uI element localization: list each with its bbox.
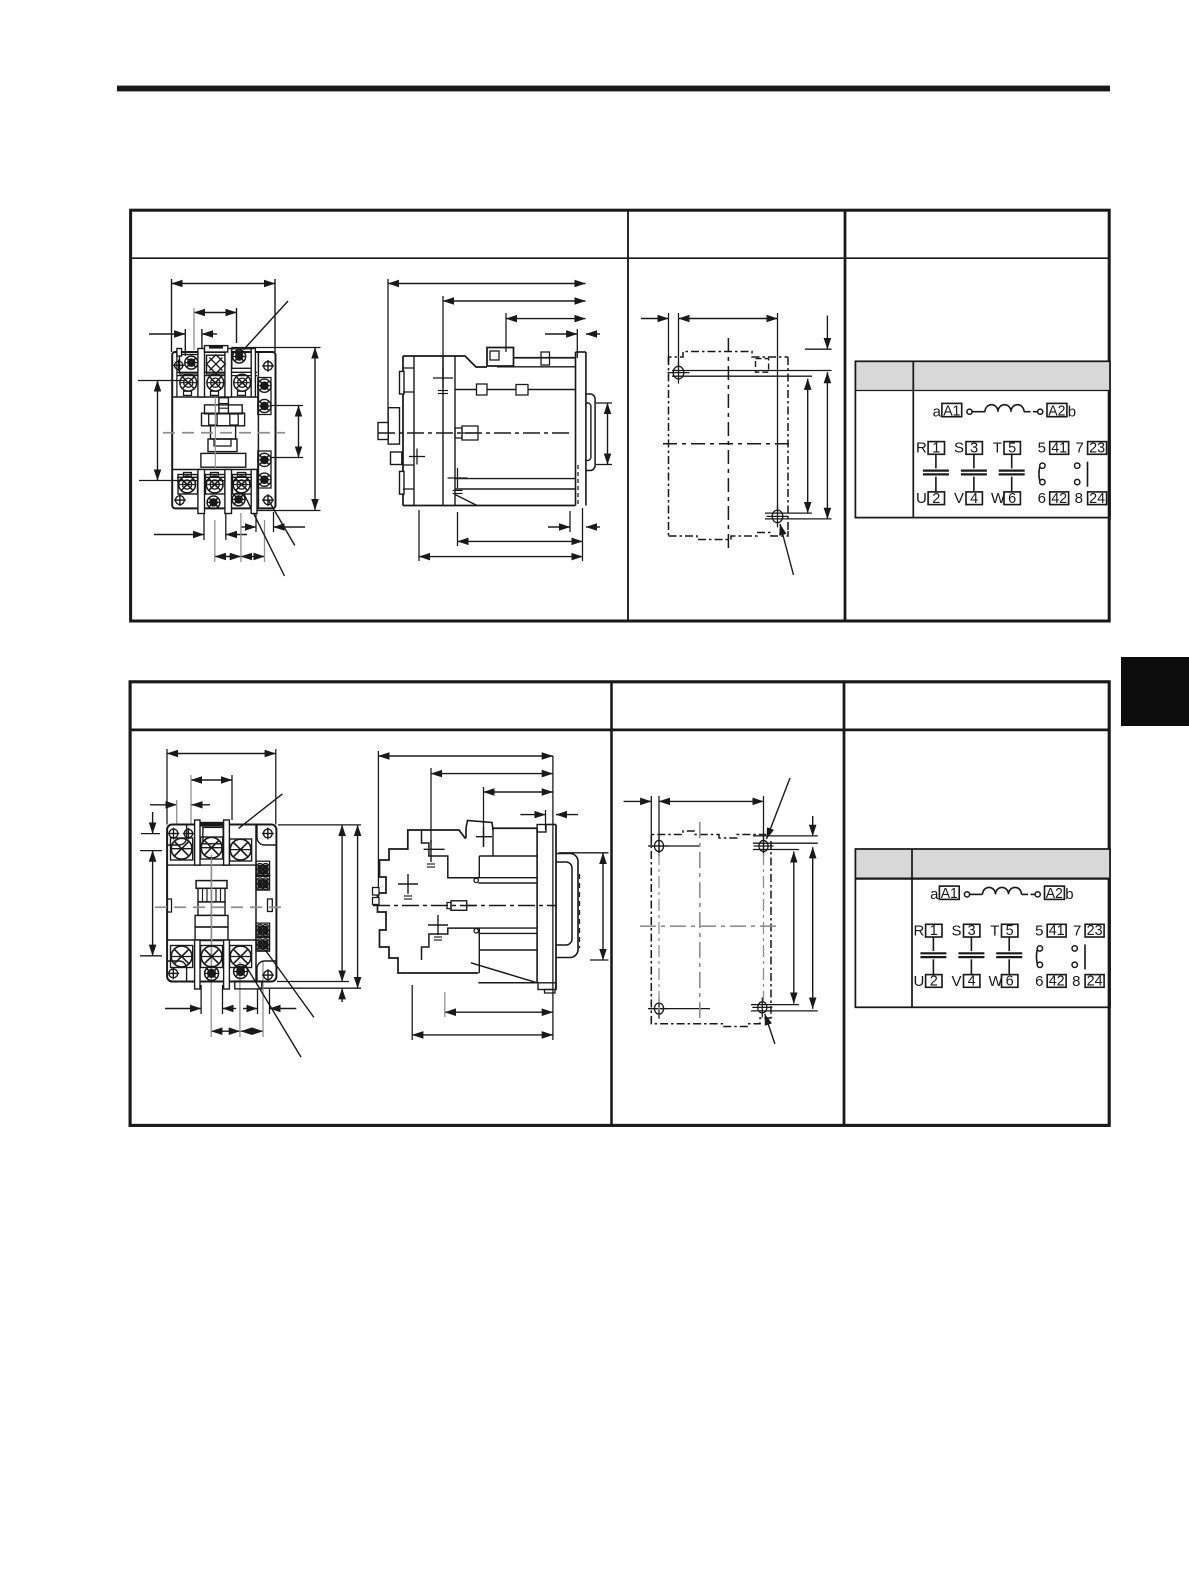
device outline (phantom) (669, 352, 789, 363)
front view: aux block height dimension (298, 406, 300, 458)
side view: rail gap dim (545, 333, 577, 335)
load side tabs (184, 473, 192, 477)
terminal lug marks (184, 391, 192, 395)
DIN rail bracket (586, 394, 595, 471)
aux NO contact 23-24 (1075, 463, 1080, 468)
svg-text:41: 41 (1051, 440, 1067, 456)
front view 2: terminal span dim (191, 779, 232, 781)
side profile 2: left staircase (378, 830, 422, 973)
svg-text:6: 6 (1035, 973, 1043, 990)
side view 2: rail gap dim (520, 814, 545, 816)
front face protrusions (400, 371, 405, 394)
svg-text:S: S (952, 922, 962, 939)
diagram table gray header (855, 361, 1110, 390)
svg-text:3: 3 (970, 440, 978, 456)
vertical hole axes (658, 853, 660, 1015)
leader to load terminal screw (244, 493, 285, 576)
svg-text:V: V (952, 973, 962, 990)
diagram table gray header (855, 849, 1110, 879)
center line (163, 432, 285, 434)
bottom lugs (195, 940, 200, 989)
load side screws (171, 946, 192, 967)
svg-text:T: T (990, 922, 999, 939)
bottom dims row A (165, 1008, 201, 1010)
case mid verticals (478, 856, 480, 878)
front view: terminal span dimension (194, 312, 237, 314)
svg-text:42: 42 (1051, 491, 1067, 507)
top cover dark bar (196, 822, 223, 827)
front view: overall height dimension (314, 348, 316, 511)
center lines 2 (699, 822, 701, 1023)
svg-text:3: 3 (968, 923, 976, 939)
aux NC contact 41-42 (1040, 463, 1045, 468)
hidden edge (577, 465, 579, 505)
line side screws (171, 838, 192, 859)
case internal verticals (442, 356, 444, 506)
phase separators top (198, 349, 205, 398)
center pin (451, 901, 467, 911)
top small screws (184, 829, 192, 837)
main contact (935, 454, 937, 468)
corner mounting ears (167, 825, 187, 845)
side view: overall depth dimension (388, 283, 586, 285)
center line 2 (373, 905, 557, 907)
bottom dims row B (211, 1030, 240, 1032)
height dims (807, 379, 809, 513)
load side screw pads (171, 946, 193, 968)
case horizontal edges (497, 366, 576, 368)
side view 2: depth dim 2 (431, 773, 553, 775)
DIN bracket 2 (556, 854, 578, 958)
svg-text:A1: A1 (941, 886, 958, 902)
side view: depth to mounting face dim (443, 300, 586, 302)
left small dim (152, 812, 154, 834)
svg-text:U: U (914, 973, 925, 990)
svg-text:8: 8 (1075, 490, 1083, 507)
svg-text:6: 6 (1008, 491, 1016, 507)
svg-text:1: 1 (930, 923, 938, 939)
table 2 frame (130, 682, 1109, 1126)
mounting hole bottom-right (772, 510, 783, 523)
hole extension lines (672, 370, 832, 372)
side view: cover depth dim (506, 318, 586, 320)
svg-text:24: 24 (1087, 974, 1103, 990)
side view 2: cover depth dim (484, 791, 553, 793)
side view: rail height dim (607, 403, 609, 465)
leader to line terminal (239, 794, 283, 829)
svg-text:1: 1 (932, 440, 940, 456)
svg-text:7: 7 (1076, 440, 1084, 457)
bottom foot 2 (471, 963, 537, 983)
device outline 2 (phantom) (651, 831, 766, 845)
center lines (727, 338, 729, 550)
svg-text:S: S (954, 440, 964, 457)
svg-text:42: 42 (1049, 974, 1065, 990)
svg-text:6: 6 (1038, 490, 1046, 507)
svg-text:b: b (1068, 404, 1076, 421)
mounting hole top-left (673, 366, 684, 379)
svg-text:T: T (993, 440, 1002, 457)
main contact (932, 937, 934, 951)
line side screw pads (171, 838, 193, 860)
svg-text:2: 2 (932, 491, 940, 507)
table 1 frame (131, 210, 1110, 621)
leaders (266, 951, 314, 1017)
terminal rails (474, 878, 478, 882)
corner mounting screws (175, 361, 183, 369)
hidden bracket edge (579, 874, 581, 948)
main contact (970, 937, 972, 951)
screw cross top (424, 848, 445, 850)
top screw pads (180, 355, 200, 375)
side view bottom dims (458, 540, 583, 542)
bottom angled cut (455, 495, 477, 506)
svg-text:2: 2 (930, 974, 938, 990)
mounting plate 2 (536, 828, 538, 983)
inner steps (422, 830, 480, 878)
main contact (973, 454, 975, 468)
svg-text:5: 5 (1006, 923, 1014, 939)
side view 2: bottom dims (445, 1011, 553, 1013)
svg-text:23: 23 (1089, 440, 1105, 456)
svg-text:4: 4 (970, 491, 978, 507)
terminal block edges (167, 864, 256, 866)
front view: mounting pitch dimension (157, 381, 159, 481)
front view 2: overall width dim (167, 753, 276, 755)
svg-text:R: R (914, 922, 925, 939)
front view: overall width dimension (172, 283, 276, 285)
svg-text:R: R (916, 440, 927, 457)
main contact (1011, 454, 1013, 468)
svg-text:A2: A2 (1048, 403, 1065, 419)
mounting holes 2: width dims (624, 800, 652, 802)
center line (378, 432, 570, 434)
svg-text:b: b (1065, 886, 1073, 903)
front view: terminal pitch dimension (149, 333, 185, 335)
mounting plate (575, 352, 577, 506)
svg-text:23: 23 (1087, 923, 1103, 939)
svg-text:5: 5 (1035, 922, 1043, 939)
side profile outline (403, 356, 487, 367)
load side screw pads (178, 475, 198, 495)
center phase axis (211, 858, 213, 962)
main contact (1008, 937, 1010, 951)
aux terminal screws (264, 362, 273, 371)
aux NO contact 23-24 (1072, 946, 1077, 951)
contactor 2 body outline (167, 825, 276, 982)
line side terminal screws (185, 356, 198, 369)
clip details (477, 384, 488, 395)
svg-text:V: V (954, 490, 964, 507)
screw cross mid (476, 836, 492, 838)
svg-text:24: 24 (1089, 491, 1105, 507)
terminal block edges (172, 396, 258, 398)
leader to mounting hole (780, 524, 794, 575)
side view 2: rail height dim (602, 853, 604, 960)
contactor body outline (172, 352, 275, 508)
front view 2: pitch dim (150, 804, 177, 806)
side profile 2: top edge (422, 830, 467, 838)
svg-text:4: 4 (968, 974, 976, 990)
svg-text:5: 5 (1008, 440, 1016, 456)
svg-text:a: a (933, 404, 942, 421)
left mounting pitch dim (152, 851, 154, 956)
leaders 2 (767, 778, 791, 839)
svg-text:8: 8 (1072, 973, 1080, 990)
right height dims (341, 825, 343, 982)
side view 2: overall depth dim (378, 755, 553, 757)
svg-text:a: a (930, 886, 939, 903)
diagram table frame (855, 849, 1110, 1007)
svg-text:5: 5 (1038, 440, 1046, 457)
svg-text:A1: A1 (943, 403, 960, 419)
aux NC contact 41-42 (1037, 946, 1042, 951)
hole extension lines 2 (753, 842, 818, 844)
crossbar mechanism (196, 881, 227, 889)
load side screws (179, 476, 196, 493)
leader to line terminal screw (244, 301, 289, 350)
mounting holes: width dims (641, 318, 669, 320)
bottom lugs (198, 470, 205, 514)
mounting holes 2 (654, 840, 663, 851)
center phase axis (214, 397, 216, 469)
clamp screws row (180, 374, 197, 391)
svg-text:U: U (916, 490, 927, 507)
svg-text:7: 7 (1073, 922, 1081, 939)
crossbar mechanism (219, 398, 229, 414)
svg-text:6: 6 (1006, 974, 1014, 990)
screw crosses lower (398, 883, 418, 885)
top tabs (177, 349, 182, 357)
side tick tabs (168, 899, 172, 912)
mounting screw cross marks (433, 377, 453, 379)
height dims 2 (793, 852, 795, 1004)
leader to aux terminal screw (268, 499, 295, 546)
diagram table frame (855, 361, 1110, 517)
center line (155, 906, 288, 908)
svg-text:A2: A2 (1046, 886, 1063, 902)
header rule (117, 86, 1110, 92)
aux screw blocks (256, 861, 270, 875)
phase separators (195, 820, 200, 865)
section index tab (1121, 657, 1189, 726)
svg-text:41: 41 (1049, 923, 1065, 939)
bottom dimensions (154, 534, 204, 536)
side view bottom small dim (548, 526, 570, 528)
